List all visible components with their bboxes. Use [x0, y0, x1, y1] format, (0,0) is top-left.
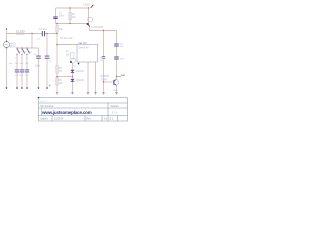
resistor R2 — [69, 12, 72, 19]
resistor R3 — [56, 25, 59, 32]
svg-text:1N4148: 1N4148 — [76, 71, 85, 73]
resistor R6 — [56, 77, 59, 85]
ground x88 — [87, 93, 90, 95]
svg-text:bat. 9V: bat. 9V — [79, 42, 87, 45]
wire switch branch x=27 — [26, 48, 28, 88]
svg-text:out: out — [121, 73, 125, 77]
wire top rail +12V y=8 — [56, 7, 90, 9]
svg-text:Datum:: Datum: — [41, 118, 49, 121]
wire branch x=47 — [46, 34, 48, 89]
svg-text:C4 10u 16V: C4 10u 16V — [60, 37, 73, 40]
wire vertical x=55.5 (C1 branch) — [55, 8, 57, 24]
box annotation — [77, 45, 98, 63]
wire emitter T1 down — [89, 24, 90, 30]
switch S2 — [22, 49, 25, 54]
open end dots — [6, 63, 80, 89]
ground x72.5 — [71, 93, 74, 95]
capacitor C6 — [20, 70, 24, 72]
switch S3 — [27, 49, 30, 54]
svg-text:16V: 16V — [100, 60, 104, 62]
ground x57 — [56, 93, 59, 95]
svg-text:R1 100k: R1 100k — [16, 30, 26, 33]
wire collector x=88.5 — [88, 8, 90, 24]
resistor R5 — [56, 65, 59, 73]
title block — [39, 98, 128, 122]
+12V arrow — [91, 5, 93, 8]
wire box pin x=95.5 — [95, 62, 97, 93]
microphone MIC1 — [3, 42, 9, 48]
wire emitter rail y=30.5 — [90, 30, 117, 32]
capacitor C12 — [114, 57, 119, 59]
capacitor C5 — [15, 70, 19, 72]
svg-text:21.03.04: 21.03.04 — [54, 118, 64, 121]
svg-text:T2 4k7: T2 4k7 — [101, 79, 109, 81]
junction dots — [16, 7, 117, 82]
wire into box y=44.5 — [57, 44, 77, 46]
wire base rail y=23.5 — [56, 23, 88, 25]
wire switch branch x=17 — [16, 48, 18, 88]
svg-text:C2 2u2: C2 2u2 — [39, 28, 47, 31]
wire mic bottom lead — [6, 48, 8, 88]
capacitor C7 — [25, 70, 29, 72]
svg-text:100n: 100n — [35, 66, 41, 68]
capacitor C2 (series) — [42, 31, 44, 36]
resistor R7 — [71, 52, 75, 59]
svg-text:Version: Version — [111, 105, 120, 108]
mic supply arrowhead — [6, 28, 8, 30]
indicator circle — [71, 58, 76, 63]
wire vertical x=70 (R2 branch) — [69, 8, 71, 24]
ground x103.5 — [102, 93, 105, 95]
ground x95.5 — [94, 93, 97, 95]
wire input rail y=33.5 — [7, 33, 58, 35]
svg-text:GND: GND — [113, 90, 118, 92]
wire switch rail y=48 — [17, 47, 39, 49]
wire x=32 drop — [31, 34, 33, 49]
svg-text:NF-Vorverst.: NF-Vorverst. — [41, 105, 55, 108]
wire divider column x=57 — [56, 24, 58, 93]
ground x116.5 — [115, 93, 118, 95]
wire x=116.5 down — [116, 31, 118, 80]
svg-text:+12V: +12V — [83, 2, 90, 6]
diode D2 — [70, 79, 74, 81]
wire base T2 y=82 — [104, 81, 114, 83]
capacitor C10 — [102, 57, 105, 59]
svg-text:1 / 1: 1 / 1 — [112, 112, 117, 115]
svg-text:1M: 1M — [72, 16, 75, 19]
transistor T1 — [88, 17, 93, 22]
ground symbols — [56, 93, 118, 95]
wire out stub green — [117, 76, 122, 78]
capacitor C11 — [114, 44, 119, 46]
wire branch x=38.5 — [38, 48, 40, 88]
wire switch branch x=22 — [21, 48, 23, 88]
svg-text:100n: 100n — [120, 58, 126, 60]
wire x=103.5 down — [103, 31, 105, 93]
capacitor C1 — [53, 17, 58, 19]
diode D1 — [70, 70, 74, 72]
resistor R1 — [17, 32, 25, 34]
wire mic top lead — [6, 29, 8, 42]
wire box pin x=88 — [87, 62, 89, 93]
capacitor C9 — [45, 56, 50, 58]
wire diode column x=72.5 — [72, 63, 74, 93]
wire box stub x=78.5 — [78, 62, 80, 63]
svg-text:100n: 100n — [59, 15, 65, 18]
svg-text:1N4148: 1N4148 — [76, 80, 85, 82]
capacitor C8 — [36, 56, 41, 58]
svg-text:16V: 16V — [120, 46, 124, 48]
background — [0, 0, 130, 125]
switch S1 — [17, 49, 20, 54]
svg-text:Ub= 8.4V: Ub= 8.4V — [79, 46, 89, 49]
svg-text:Rev 1.1: Rev 1.1 — [40, 101, 48, 103]
net cross — [48, 84, 50, 86]
svg-text:www.justsomeplace.com: www.justsomeplace.com — [41, 110, 92, 115]
svg-text:BC557B: BC557B — [101, 76, 110, 78]
wire emitter T2 to ground — [116, 85, 118, 92]
wire to diodes y=76.5 — [57, 76, 73, 78]
transistor T2 — [113, 80, 118, 85]
svg-text:T1 BC547B: T1 BC547B — [91, 26, 104, 29]
